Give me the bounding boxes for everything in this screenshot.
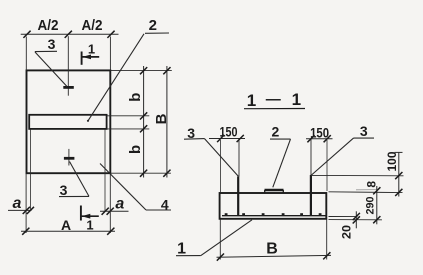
slab-top extension line bbox=[329, 191, 403, 194]
svg-text:290: 290 bbox=[365, 197, 377, 215]
svg-text:—: — bbox=[266, 91, 281, 108]
svg-text:3: 3 bbox=[60, 182, 68, 198]
dimension line 100/8 bbox=[398, 152, 400, 196]
svg-text:b: b bbox=[127, 145, 144, 154]
top dimension line A/2 A/2 bbox=[21, 33, 119, 35]
mesh line with dots bbox=[222, 215, 326, 217]
band-right extension line bbox=[104, 130, 106, 212]
extension line left bbox=[25, 37, 27, 71]
svg-text:2: 2 bbox=[272, 124, 280, 140]
svg-text:2: 2 bbox=[149, 17, 157, 34]
section mark 1 (bottom) bbox=[80, 206, 82, 221]
svg-text:A: A bbox=[61, 217, 71, 233]
svg-text:1: 1 bbox=[177, 241, 186, 258]
svg-text:20: 20 bbox=[339, 225, 353, 239]
slab outline bbox=[220, 193, 327, 219]
plan outline bbox=[27, 70, 111, 173]
svg-text:1: 1 bbox=[247, 91, 256, 110]
outer vertical dimension line (B) bbox=[166, 66, 168, 178]
plan-left extension line (down) bbox=[25, 173, 27, 233]
svg-text:3: 3 bbox=[48, 36, 56, 52]
svg-text:100: 100 bbox=[385, 151, 399, 171]
B dimension line bbox=[217, 255, 332, 257]
svg-text:a: a bbox=[115, 196, 124, 213]
right bar (dowel 3) bbox=[310, 175, 312, 216]
svg-text:A/2: A/2 bbox=[38, 17, 59, 34]
plate (element 2) bbox=[265, 189, 284, 192]
svg-text:1: 1 bbox=[88, 42, 95, 57]
svg-text:a: a bbox=[13, 195, 22, 212]
svg-text:B: B bbox=[153, 113, 170, 124]
svg-text:1: 1 bbox=[86, 218, 93, 233]
mesh extension line bbox=[329, 216, 358, 218]
bottom dimension A bbox=[21, 230, 115, 232]
B extension lines bbox=[219, 220, 221, 260]
plan-right extension line (down) bbox=[109, 173, 111, 233]
svg-text:3: 3 bbox=[360, 123, 368, 139]
bottom lifting loop mark (+) bbox=[68, 149, 70, 166]
extension line right bbox=[109, 37, 111, 71]
band (opening 2) bbox=[29, 115, 106, 129]
sketch grey line bbox=[356, 189, 378, 191]
svg-text:A/2: A/2 bbox=[82, 17, 103, 34]
top lifting loop mark (+) bbox=[67, 36, 69, 95]
dimension line 290 bbox=[376, 186, 378, 224]
inner vertical dimension line (b / b) bbox=[143, 66, 145, 178]
svg-text:b: b bbox=[127, 93, 144, 102]
dimension line 20 bbox=[355, 211, 357, 228]
section mark 1 (top) bbox=[81, 52, 83, 65]
bar-top extension line bbox=[311, 174, 404, 176]
band-left extension line bbox=[30, 130, 32, 211]
slab-bottom extension line bbox=[329, 219, 383, 221]
right-side extension lines (b,B) bbox=[110, 70, 171, 72]
svg-text:B: B bbox=[266, 241, 278, 258]
svg-text:1: 1 bbox=[292, 90, 301, 109]
left bar (dowel 3) bbox=[237, 177, 239, 217]
